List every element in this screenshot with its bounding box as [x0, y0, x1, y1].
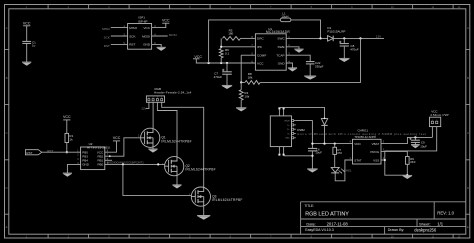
svg-text:SCK: SCK	[129, 34, 136, 38]
svg-text:PB4: PB4	[82, 159, 88, 163]
svg-text:PB3: PB3	[82, 155, 88, 159]
USB2 right pins	[292, 120, 294, 122]
svg-text:E: E	[6, 225, 8, 229]
svg-text:PB0: PB0	[98, 163, 104, 167]
svg-text:VCC: VCC	[97, 151, 104, 155]
svg-text:MOSI: MOSI	[169, 33, 177, 37]
capacitor C1	[22, 40, 31, 42]
svg-text:GND: GND	[278, 61, 286, 65]
svg-text:B: B	[6, 76, 8, 80]
svg-text:E: E	[467, 225, 469, 229]
wire C1 to ground	[26, 43, 28, 62]
ground (R9/VSS)	[403, 174, 413, 176]
power flag VCC (U2)	[113, 140, 120, 142]
svg-text:USB2: USB2	[297, 128, 305, 132]
svg-text:VCC: VCC	[63, 115, 71, 119]
charger CHRG1 TP4056	[353, 139, 382, 164]
wire USB bottom pad to ground node	[284, 155, 313, 157]
title block	[301, 202, 466, 234]
wire RST to U2 PB5	[42, 151, 81, 153]
svg-text:PB2: PB2	[98, 155, 104, 159]
svg-text:MISO: MISO	[102, 27, 110, 31]
svg-text:470uF: 470uF	[214, 75, 223, 79]
svg-text:DRC: DRC	[257, 37, 264, 41]
wire battery pin1	[431, 127, 433, 138]
power flag VCC (ISP1)	[162, 22, 169, 24]
svg-text:TITLE:: TITLE:	[304, 204, 314, 208]
svg-text:SWE: SWE	[278, 45, 285, 49]
svg-text:ISP1: ISP1	[138, 16, 145, 20]
svg-text:0.1: 0.1	[225, 51, 230, 55]
ground (Q1)	[148, 148, 157, 150]
wire PB0 branch to Q3 gate	[123, 164, 191, 195]
svg-text:MC34063ADR: MC34063ADR	[266, 30, 290, 34]
svg-text:C9: C9	[421, 140, 425, 144]
svg-text:RGB LED ATTINY: RGB LED ATTINY	[305, 211, 349, 217]
svg-text:SCK: SCK	[104, 36, 110, 40]
transistor Q1 IRLML6244TRPBF	[138, 128, 192, 147]
svg-text:10uF: 10uF	[420, 145, 427, 149]
wire Q2 source to ground	[176, 176, 178, 185]
svg-text:Date:: Date:	[306, 221, 316, 226]
svg-text:deskpro256: deskpro256	[414, 227, 437, 232]
svg-text:1k: 1k	[69, 137, 73, 141]
ground (C1)	[22, 61, 31, 63]
resistor R6 0.1	[219, 49, 223, 58]
svg-text:12V: 12V	[376, 34, 381, 38]
wire IPK	[221, 46, 255, 48]
svg-text:Drawn By:: Drawn By:	[388, 228, 405, 232]
svg-text:RST: RST	[47, 149, 53, 153]
svg-text:GND: GND	[285, 138, 290, 140]
ground (C6/USB)	[307, 168, 317, 170]
resistor R4 10k to ground	[240, 82, 242, 89]
wire U2 GND to ground	[67, 164, 80, 173]
svg-text:VBUS: VBUS	[284, 121, 290, 123]
wire battery pin2 to ground net	[385, 127, 437, 176]
svg-text:TCAP: TCAP	[276, 54, 284, 58]
wire MOSI pin4	[152, 35, 168, 37]
svg-text:10uF: 10uF	[315, 151, 322, 155]
power flag VCC (R1)	[63, 119, 70, 121]
wire header pin3 to Q2 drain	[157, 102, 177, 156]
ground (C9)	[414, 142, 416, 144]
svg-text:VBAT: VBAT	[372, 142, 380, 146]
wire U2 PB0 to Q2 gate	[105, 163, 165, 165]
resistor R8 18k feedback	[241, 81, 245, 83]
wire C6 to ground node	[311, 151, 313, 169]
ground (C8)	[339, 57, 349, 59]
svg-text:SWC: SWC	[277, 37, 285, 41]
svg-text:VCC: VCC	[162, 19, 170, 23]
svg-text:VDD: VDD	[354, 142, 361, 146]
svg-text:470: 470	[337, 151, 342, 155]
svg-text:IRLML6244TRPBF: IRLML6244TRPBF	[212, 198, 242, 202]
ground (R4)	[236, 107, 246, 109]
svg-text:180: 180	[228, 31, 233, 35]
svg-text:D-: D-	[287, 125, 289, 127]
svg-text:470uF: 470uF	[350, 47, 359, 51]
wire VBAT to battery	[381, 137, 432, 143]
diode D2	[321, 119, 327, 125]
svg-text:1/1: 1/1	[437, 221, 443, 226]
svg-text:STAT: STAT	[354, 158, 361, 162]
capacitor C7 470uF	[226, 63, 228, 72]
svg-text:Sheet:: Sheet:	[419, 221, 431, 226]
diode D1 P11015ALRP	[328, 36, 334, 42]
wire header pin2 to Q1 drain	[152, 102, 154, 128]
resistor R1 1k	[65, 133, 69, 142]
svg-text:VCC: VCC	[143, 26, 150, 30]
svg-text:VCC: VCC	[113, 136, 121, 140]
svg-text:Header-Female-2.54_1x4: Header-Female-2.54_1x4	[154, 91, 192, 95]
wire RST pin5	[111, 43, 128, 45]
svg-text:REV: 1.0: REV: 1.0	[437, 211, 454, 216]
svg-text:10uH: 10uH	[281, 15, 288, 19]
ground (Q3)	[197, 215, 210, 217]
svg-text:2017-11-08: 2017-11-08	[327, 221, 349, 226]
wire R9 to ground	[406, 164, 408, 175]
inductor L1 10uH	[280, 18, 291, 22]
ground (SWE)	[294, 48, 303, 50]
wire GND pin6	[152, 44, 162, 47]
wire 12V feedback drop	[260, 38, 360, 82]
wire VCC rail to U1	[196, 59, 255, 63]
wire U1 GND to ground	[286, 63, 292, 68]
wire LED to STAT	[335, 160, 352, 181]
wire U2 PB2 to Q1 gate	[105, 138, 141, 156]
wire COMP feedback riser	[241, 54, 255, 56]
wire SWE to ground	[286, 47, 299, 49]
netflag RST	[25, 150, 41, 155]
svg-text:18k: 18k	[248, 75, 253, 79]
ground (Q2)	[172, 184, 181, 186]
LED CHG1	[331, 167, 339, 172]
wire Q1 source to ground	[152, 147, 154, 149]
wire Q3 source to ground	[203, 206, 205, 215]
svg-text:VCC: VCC	[257, 61, 264, 65]
svg-text:B: B	[467, 76, 469, 80]
wire TCAP to C22	[286, 55, 310, 61]
svg-text:COMP: COMP	[257, 54, 266, 58]
svg-text:IRLML6244TRPBF: IRLML6244TRPBF	[185, 168, 215, 172]
resistor R7 470	[334, 144, 336, 148]
USB2 bottom mounting pins	[278, 147, 280, 154]
capacitor C6 10uF	[308, 147, 317, 149]
svg-text:ISP-6P: ISP-6P	[138, 20, 148, 24]
capacitor C8 470uF	[343, 38, 345, 43]
svg-text:IRLML6244TRPBF: IRLML6244TRPBF	[161, 139, 191, 143]
wire USB pads rail to D2	[279, 107, 324, 118]
op IC U1 MC34063ADR	[255, 34, 286, 70]
wire SWC to D1	[286, 37, 327, 39]
svg-text:RST: RST	[26, 151, 32, 155]
wire VSS to ground net	[381, 159, 385, 161]
frame row ticks left/right	[5, 50, 471, 215]
wire SCK pin3	[111, 35, 128, 37]
svg-text:GND: GND	[143, 43, 151, 47]
transistor Q3 IRLML6244TRPBF	[189, 187, 243, 206]
wire U2 VCC to flag	[105, 141, 117, 152]
USB2 top mounting pins	[278, 109, 280, 116]
wire header pin1 to 12V	[146, 102, 149, 108]
capacitor C9 10uF	[414, 137, 416, 140]
wire D2 to VDD rail	[324, 125, 326, 143]
wire PROG to R9	[381, 151, 407, 156]
ground (U2)	[63, 172, 72, 174]
wire R1 to RST net	[66, 143, 68, 153]
wire VCC to R1	[66, 120, 68, 133]
svg-text:EasyEDA V4.10.3: EasyEDA V4.10.3	[305, 228, 334, 232]
svg-text:A: A	[6, 26, 8, 30]
ground (C7)	[222, 84, 232, 86]
svg-text:GND: GND	[82, 163, 90, 167]
svg-text:12V: 12V	[141, 107, 146, 111]
ground (U1)	[288, 67, 297, 69]
wire VCC riser to L1 rail	[209, 20, 281, 63]
capacitor C22 330pF	[306, 61, 315, 63]
svg-text:330pF: 330pF	[315, 64, 324, 68]
connector ISP1 ISP-6P	[128, 24, 152, 50]
wire MISO pin1	[111, 27, 128, 29]
svg-text:2K0: 2K0	[410, 160, 416, 164]
wire L1 to SWC node	[291, 20, 321, 39]
wire U2 PB1 stub	[105, 159, 112, 161]
resistor R5 180	[220, 38, 222, 46]
wire VCC pin2	[152, 23, 166, 27]
svg-text:PROG: PROG	[370, 150, 380, 154]
wire VDD rail	[312, 143, 352, 145]
connector USB2 micro USB board	[270, 116, 291, 147]
wire header pin4 to Q3 drain	[162, 102, 204, 187]
transistor Q2 IRLML6244TRPBF	[162, 157, 216, 176]
power flag VCC (C1)	[23, 25, 30, 27]
svg-text:RST: RST	[129, 43, 135, 47]
svg-text:ATTINY25-20SU: ATTINY25-20SU	[87, 146, 110, 150]
svg-text:VCC: VCC	[23, 21, 31, 25]
svg-text:VSS: VSS	[373, 158, 379, 162]
svg-text:MOSI: MOSI	[142, 34, 150, 38]
svg-text:A: A	[467, 26, 469, 30]
svg-text:PB5: PB5	[82, 151, 88, 155]
MCU U2 ATTINY25-20SU	[81, 147, 105, 170]
ground (ISP1)	[157, 46, 166, 48]
svg-text:PB1: PB1	[98, 159, 104, 163]
svg-text:MISO: MISO	[129, 26, 138, 30]
svg-text:1u: 1u	[32, 44, 36, 48]
svg-text:CHRG1: CHRG1	[358, 128, 369, 132]
ground (C22)	[304, 75, 316, 77]
wire R7 to LED	[334, 154, 336, 167]
svg-text:RST: RST	[104, 44, 110, 48]
svg-text:P11015ALRP: P11015ALRP	[327, 29, 345, 33]
svg-text:10k: 10k	[244, 94, 249, 98]
wire VCC to C1	[26, 26, 28, 41]
wire VBUS to C6 node	[296, 121, 313, 149]
wire D1 to 12V	[333, 37, 384, 39]
resistor R9 2K0	[406, 157, 410, 165]
svg-text:2.54mm 1*2P: 2.54mm 1*2P	[430, 113, 448, 117]
